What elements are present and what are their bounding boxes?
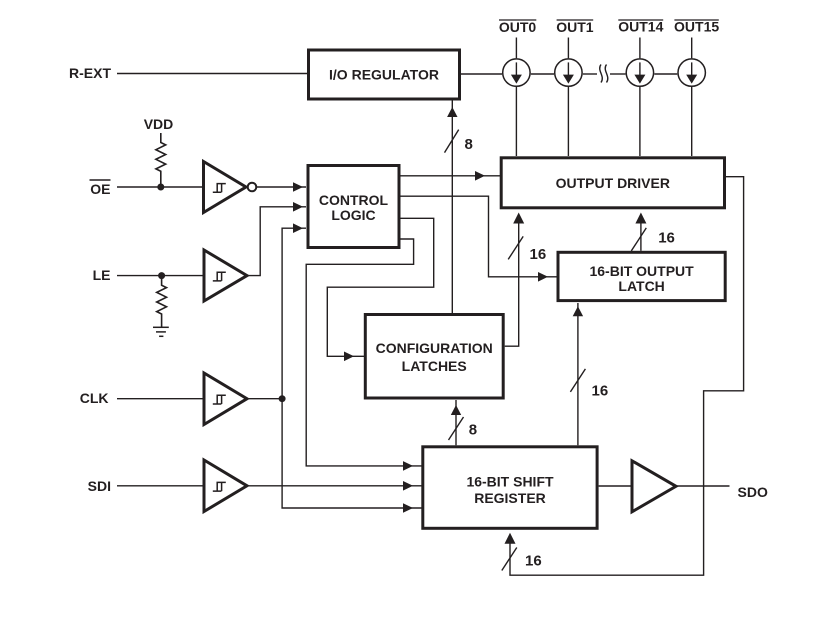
block OUTPUT DRIVER: [501, 158, 724, 208]
svg-text:LATCH: LATCH: [618, 278, 664, 294]
hysteresis glyph U2: [213, 272, 226, 281]
overline on OUT14: [618, 19, 663, 21]
arrow into output driver bottom left: [513, 213, 524, 224]
svg-text:REGISTER: REGISTER: [474, 490, 546, 506]
schmitt buffer U2 (LE): [204, 250, 247, 301]
current source OUT0: [503, 59, 530, 86]
arrow into output latch left: [538, 272, 548, 282]
block CONFIGURATION LATCHES: [365, 315, 503, 399]
wire control logic to configuration latches: [327, 218, 433, 356]
svg-text:8: 8: [469, 422, 477, 439]
slash on 16-bit latch bus: [570, 369, 585, 392]
break squiggle: [600, 65, 608, 83]
resistor R-VDD pullup: [156, 133, 166, 187]
svg-text:CONTROL: CONTROL: [319, 192, 389, 208]
slash on 16-bit driver bus right: [631, 228, 646, 251]
svg-text:16: 16: [658, 230, 675, 247]
bus output latch to output driver (16): [640, 223, 642, 251]
wire control logic to 16-bit output latch: [400, 196, 557, 277]
wire control logic to output driver: [400, 175, 500, 177]
pin OUT14 label: [618, 19, 663, 35]
slash on 16-bit feedback bus: [502, 548, 517, 571]
svg-text:R-EXT: R-EXT: [69, 65, 111, 81]
arrow into control logic input 2: [293, 202, 303, 212]
pin OUT1 label: [556, 19, 594, 35]
arrow into output latch bottom: [573, 306, 583, 316]
svg-text:CLK: CLK: [80, 390, 109, 406]
schmitt buffer U4 (SDI): [204, 460, 247, 512]
block 16-BIT OUTPUT LATCH: [558, 252, 725, 300]
wire CLK input: [117, 398, 204, 400]
node VDD/OE junction: [157, 184, 164, 191]
wire CLK up to control logic: [282, 228, 306, 399]
svg-text:OUT0: OUT0: [499, 19, 537, 35]
slash on 16-bit driver bus left: [508, 236, 523, 259]
wire OUT1 pin: [567, 38, 569, 157]
hysteresis glyph U4: [213, 482, 226, 491]
svg-text:OUT1: OUT1: [556, 19, 594, 35]
wire U4 output to shift register: [247, 485, 422, 487]
overline on OUT0: [499, 19, 536, 21]
current source OUT14: [626, 59, 653, 86]
wire regulator to current sources: [461, 73, 502, 75]
wire control logic to shift register: [306, 239, 421, 466]
block I/O REGULATOR: [309, 50, 460, 99]
wire OUT14 pin: [639, 38, 641, 157]
node CLK junction: [279, 395, 286, 402]
svg-text:I/O REGULATOR: I/O REGULATOR: [329, 66, 439, 82]
block CONTROL LOGIC: [308, 166, 399, 248]
resistor R-LE pulldown: [157, 276, 167, 327]
arrow into control logic input 3: [293, 223, 303, 233]
wire output driver feedback to shift register: [510, 177, 744, 576]
wire LE input: [117, 275, 204, 277]
svg-text:VDD: VDD: [144, 116, 174, 132]
schmitt buffer U3 (CLK): [204, 373, 247, 425]
wire OUT1 source to break: [583, 73, 597, 75]
svg-text:SDO: SDO: [738, 484, 768, 500]
arrow into shift register input 1: [403, 461, 413, 471]
wire OUT15 pin: [691, 38, 693, 157]
slash on 8-bit config bus: [449, 417, 464, 440]
svg-text:CONFIGURATION: CONFIGURATION: [376, 340, 493, 356]
current source OUT1: [555, 59, 582, 86]
bus shift register to configuration latches (8): [455, 400, 457, 445]
arrow into shift register input 3: [403, 503, 413, 513]
overline on OE: [90, 179, 111, 181]
inverter bubble U1: [248, 183, 257, 192]
wire OUT0 pin: [515, 38, 517, 157]
wire CLK down to shift register: [282, 399, 421, 508]
bus shift register to output latch (16): [577, 303, 579, 445]
svg-text:16-BIT OUTPUT: 16-BIT OUTPUT: [589, 263, 694, 279]
svg-text:LE: LE: [93, 267, 111, 283]
hysteresis glyph U3: [213, 395, 226, 404]
arrow into output driver left: [475, 171, 485, 181]
svg-text:8: 8: [465, 136, 473, 153]
wire SDI input: [117, 485, 204, 487]
hysteresis glyph U1: [213, 184, 226, 193]
ground: [153, 327, 169, 336]
wire R-EXT to I/O regulator: [117, 73, 307, 75]
bus configuration latches to I/O regulator (8): [451, 100, 453, 313]
block 16-BIT SHIFT REGISTER: [423, 447, 597, 529]
svg-text:OUT14: OUT14: [618, 19, 663, 35]
svg-text:16: 16: [530, 246, 547, 263]
svg-text:SDI: SDI: [88, 478, 111, 494]
slash on 8-bit regulator bus: [445, 130, 459, 153]
overline on OUT1: [557, 19, 594, 21]
node LE junction: [158, 272, 165, 279]
arrow into output driver bottom right: [635, 213, 646, 224]
overline on OUT15: [674, 19, 718, 21]
svg-text:OE: OE: [90, 181, 110, 197]
svg-text:LATCHES: LATCHES: [402, 358, 467, 374]
wire between OUT14 and OUT15 sources: [654, 73, 677, 75]
svg-text:LOGIC: LOGIC: [331, 207, 375, 223]
arrow into configuration latches bottom: [451, 405, 461, 415]
arrow into shift register input 2: [403, 481, 413, 491]
wire U2 output up to control logic: [247, 207, 306, 276]
bus configuration latches to output driver (16): [505, 223, 519, 347]
svg-text:OUTPUT DRIVER: OUTPUT DRIVER: [556, 175, 670, 191]
arrow into configuration latches left: [344, 352, 354, 362]
wire U3 output: [247, 398, 282, 400]
wire U1 output to control logic: [257, 186, 306, 188]
wire OE input: [117, 186, 202, 188]
arrow into control logic input 1: [293, 182, 303, 192]
wire break to OUT14 source: [610, 73, 626, 75]
buffer U5 (SDO): [632, 461, 676, 512]
svg-text:16: 16: [525, 552, 542, 569]
svg-text:16-BIT SHIFT: 16-BIT SHIFT: [466, 474, 554, 490]
arrow into I/O regulator bottom: [447, 107, 457, 117]
schmitt buffer U1 (OE, inverting): [204, 162, 247, 213]
arrow into shift register bottom: [505, 533, 516, 544]
wire between OUT0 and OUT1 sources: [531, 73, 554, 75]
wire shift register to SDO buffer: [599, 485, 631, 487]
pin OUT15 label: [674, 19, 719, 35]
current source OUT15: [678, 59, 705, 86]
svg-text:16: 16: [592, 382, 609, 399]
pin OUT0 label: [499, 19, 537, 35]
svg-text:OUT15: OUT15: [674, 19, 719, 35]
wire SDO output: [676, 485, 730, 487]
